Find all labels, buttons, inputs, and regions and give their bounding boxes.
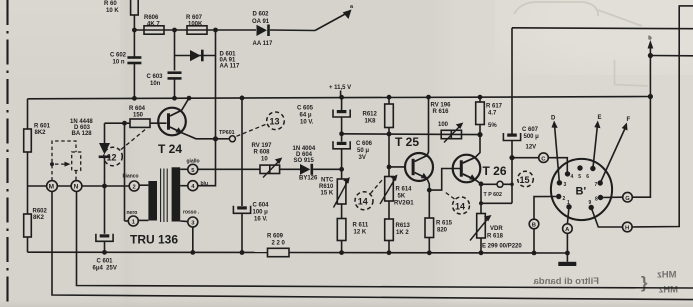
svg-text:C 603: C 603 xyxy=(147,74,164,80)
svg-text:10 V.: 10 V. xyxy=(300,120,314,126)
svg-text:12: 12 xyxy=(107,153,117,163)
resistor R611 12K xyxy=(337,219,369,241)
svg-text:2: 2 xyxy=(133,185,136,191)
svg-text:10 n: 10 n xyxy=(113,60,125,66)
svg-text:H: H xyxy=(625,226,629,232)
svg-text:R610: R610 xyxy=(319,184,334,190)
capacitor C603 10n xyxy=(147,73,182,99)
svg-text:R602: R602 xyxy=(33,209,48,215)
svg-text:64 μ: 64 μ xyxy=(300,113,312,119)
svg-text:E: E xyxy=(598,115,602,121)
node junction R605/R606 xyxy=(132,28,137,33)
b tap arrow xyxy=(648,36,693,97)
node D604/NTC xyxy=(339,167,344,172)
svg-text:7: 7 xyxy=(595,182,598,188)
svg-text:2: 2 xyxy=(563,196,566,202)
svg-text:T 26: T 26 xyxy=(483,164,507,178)
wire top bus y=30 xyxy=(134,29,256,31)
callout 14 dashed (right) xyxy=(445,192,470,214)
svg-text:1: 1 xyxy=(567,200,570,206)
capacitor C602 10n xyxy=(110,30,141,98)
svg-text:2 2 0: 2 2 0 xyxy=(272,241,286,247)
svg-text:R 608: R 608 xyxy=(254,150,271,156)
svg-text:RV 197: RV 197 xyxy=(252,143,273,149)
resistor R601 8K2 xyxy=(24,124,51,153)
wire nero feedback vertical xyxy=(124,123,126,221)
page border dash-dot left xyxy=(6,0,8,307)
svg-text:4.7: 4.7 xyxy=(488,111,497,117)
svg-text:MHz: MHz xyxy=(657,270,677,281)
M return line xyxy=(52,191,693,299)
dashed option link M-N xyxy=(52,141,81,181)
wire node b' vertical x=215.5 from top node down through rail to emitter junction xyxy=(215,30,217,139)
NTC R610 15K xyxy=(319,177,350,208)
callout 13 dashed xyxy=(237,112,285,136)
socket B' outline xyxy=(551,159,612,220)
svg-text:b: b xyxy=(648,36,652,42)
terminal 5 giallo xyxy=(180,159,199,175)
svg-text:Filtro di banda: Filtro di banda xyxy=(533,276,599,287)
ground rail bottom xyxy=(28,251,268,253)
resistor R607 xyxy=(186,15,207,34)
+11,5V label and stub xyxy=(340,91,342,98)
node rail end / G riser xyxy=(648,94,653,99)
svg-text:T 24: T 24 xyxy=(158,142,182,156)
terminal G from pin 8 xyxy=(601,97,651,203)
capacitor C601 6u4 25V xyxy=(93,234,117,272)
wire T24 emitter to junction xyxy=(182,133,216,139)
trimmer RV197 R608 10 xyxy=(252,143,283,178)
capacitor C604 100u 16V xyxy=(233,203,269,253)
svg-text:6μ4 25V: 6μ4 25V xyxy=(93,266,117,272)
svg-text:R 601: R 601 xyxy=(34,124,51,130)
svg-text:E 299 00/P220: E 299 00/P220 xyxy=(482,244,522,250)
svg-text:R606: R606 xyxy=(144,15,159,21)
terminal B xyxy=(529,197,556,253)
wire D602 to arrow a xyxy=(270,29,315,32)
transistor T25 xyxy=(395,135,433,181)
svg-text:1K 2: 1K 2 xyxy=(396,230,409,236)
svg-text:NTC: NTC xyxy=(321,178,334,184)
paper shading bands xyxy=(430,0,693,307)
node C605/C606/RV196 wire xyxy=(339,131,344,136)
test point TP601 xyxy=(216,130,236,142)
svg-text:C 604: C 604 xyxy=(253,203,270,209)
svg-text:C 602: C 602 xyxy=(110,53,127,59)
wire rosso to ground rail xyxy=(192,227,194,252)
svg-text:BA 128: BA 128 xyxy=(72,131,93,137)
svg-text:blu: blu xyxy=(201,181,209,187)
lead D to pin 3 xyxy=(551,116,559,183)
callout 15 dashed xyxy=(518,171,534,187)
svg-text:giallo: giallo xyxy=(187,159,200,165)
node junction R607/D601/D602 xyxy=(213,28,218,33)
node rail/C602 xyxy=(132,96,137,101)
svg-text:G: G xyxy=(625,196,630,202)
pin 5 xyxy=(577,165,582,170)
svg-text:R 614: R 614 xyxy=(396,187,413,193)
+11.5V rail xyxy=(28,97,651,99)
terminal H from pin 9 xyxy=(591,6,693,232)
svg-text:T P 602: T P 602 xyxy=(484,192,503,198)
svg-text:B: B xyxy=(532,223,536,229)
terminal 4 blu xyxy=(180,181,208,191)
svg-text:150: 150 xyxy=(133,113,144,119)
node junction R606/R607/C603 xyxy=(172,28,177,33)
node M xyxy=(47,181,58,192)
svg-text:8: 8 xyxy=(595,197,598,203)
terminal 3 rosso xyxy=(180,210,200,228)
svg-text:C 607: C 607 xyxy=(522,127,539,133)
node emitter/blu/TP601 xyxy=(213,136,218,141)
left column wire xyxy=(27,99,29,129)
pin 2 xyxy=(556,194,561,199)
wire T24 collector to rail xyxy=(182,98,189,110)
node RV196/R617/T26 collector xyxy=(477,132,482,137)
capacitor C607 500u 12V xyxy=(503,127,539,203)
M/N rail y=186 xyxy=(28,185,130,187)
svg-text:5%: 5% xyxy=(488,123,497,129)
trimmer R614 5K RV201 xyxy=(380,175,414,207)
lead F to pin 7 xyxy=(600,117,630,183)
svg-text:VDR: VDR xyxy=(490,226,503,232)
resistor R613 1K2 xyxy=(385,219,411,241)
svg-text:5: 5 xyxy=(578,174,581,180)
resistor R605 (cut at top) xyxy=(104,0,138,30)
svg-text:8K2: 8K2 xyxy=(35,130,47,136)
svg-text:R 618: R 618 xyxy=(487,234,504,240)
svg-text:C 601: C 601 xyxy=(97,259,114,265)
node C line tap xyxy=(509,155,514,160)
capacitor C606 50u 3V xyxy=(333,141,373,179)
svg-text:3V: 3V xyxy=(359,155,366,161)
capacitor C605 64u 10V xyxy=(297,106,350,142)
svg-text:OA 91: OA 91 xyxy=(252,19,270,25)
svg-text:16 V.: 16 V. xyxy=(254,217,268,223)
svg-text:C 605: C 605 xyxy=(297,106,314,112)
svg-text:5K: 5K xyxy=(398,194,406,200)
pin 9 xyxy=(589,205,594,210)
diode D604 1N4004 SO915 BY126 xyxy=(293,146,319,182)
pin 7 xyxy=(598,180,603,185)
top bus wire xyxy=(512,27,693,30)
wire T25 emitter to node xyxy=(427,179,429,191)
node C601/ground rail xyxy=(102,250,107,255)
svg-text:100: 100 xyxy=(438,122,449,128)
pin 3 xyxy=(557,180,562,185)
svg-text:10n: 10n xyxy=(150,81,161,87)
svg-text:13: 13 xyxy=(270,117,280,127)
svg-text:12V: 12V xyxy=(526,145,537,151)
VDR R618 E299 00/P220 xyxy=(470,214,522,253)
diode D601 0A91 AA117 xyxy=(175,50,240,70)
trimmer RV196 R616 100 xyxy=(431,103,464,143)
node D603/M-N rail xyxy=(102,184,107,189)
svg-text:R 616: R 616 xyxy=(433,109,450,115)
svg-text:10 K: 10 K xyxy=(106,8,119,14)
svg-text:+ 11,5 V: + 11,5 V xyxy=(329,85,351,91)
svg-text:R 609: R 609 xyxy=(267,234,284,240)
svg-text:{: { xyxy=(641,273,648,292)
svg-text:F: F xyxy=(627,117,631,123)
N return line xyxy=(77,191,693,288)
svg-text:N: N xyxy=(74,184,79,191)
resistor R604 150 xyxy=(125,106,167,127)
resistor R617 4.7 5% xyxy=(476,95,503,135)
callout 14 dashed (left) xyxy=(355,180,383,210)
node N xyxy=(71,181,82,192)
resistor R609 220 (in series in rail) xyxy=(267,234,289,257)
lead E to pin 6 xyxy=(593,115,602,169)
svg-text:AA 117: AA 117 xyxy=(253,41,273,47)
svg-text:TP601: TP601 xyxy=(219,130,235,136)
svg-text:4K 7: 4K 7 xyxy=(147,22,160,28)
svg-text:R 617: R 617 xyxy=(486,104,503,110)
svg-text:D: D xyxy=(551,116,556,122)
bleed-through ghosts xyxy=(514,2,648,86)
svg-text:M: M xyxy=(49,184,54,191)
wire blu to emitter node xyxy=(198,139,216,186)
resistor R615 820 xyxy=(425,190,453,253)
svg-text:4: 4 xyxy=(571,174,574,180)
svg-text:RV2Θ1: RV2Θ1 xyxy=(394,201,414,207)
terminal A on ground lead xyxy=(563,207,573,262)
wire vertical from R606/R607 node down to D601 and C603 xyxy=(174,30,176,71)
node T25 base xyxy=(387,165,392,170)
callout 12 dashed xyxy=(104,128,147,166)
svg-text:6: 6 xyxy=(586,174,589,180)
svg-text:1K8: 1K8 xyxy=(365,119,377,125)
diode D603 1N4448 BA128 branch xyxy=(70,119,125,234)
wire to emitter line xyxy=(481,202,512,204)
svg-text:B': B' xyxy=(576,186,587,198)
svg-text:RV 196: RV 196 xyxy=(431,103,452,109)
svg-text:BY126: BY126 xyxy=(299,176,318,182)
vertical C605/C606/NTC/R611 branch xyxy=(339,95,344,100)
node rail/C603 xyxy=(172,96,177,101)
svg-text:R 611: R 611 xyxy=(353,223,369,229)
svg-text:820: 820 xyxy=(437,228,448,234)
svg-text:bianco: bianco xyxy=(123,174,139,180)
svg-text:50 μ: 50 μ xyxy=(357,148,369,154)
svg-text:14: 14 xyxy=(358,197,368,207)
svg-text:9: 9 xyxy=(589,200,592,206)
test point TP602 xyxy=(481,181,514,198)
svg-text:R 604: R 604 xyxy=(129,106,146,112)
wire T26 collector xyxy=(475,135,480,158)
resistor R606 xyxy=(144,15,164,34)
resistor R612 1K8 xyxy=(363,104,394,128)
wire emitter node to T26 base xyxy=(429,169,460,191)
ground xyxy=(558,262,576,266)
svg-text:3: 3 xyxy=(564,182,567,188)
resistor R602 8K2 xyxy=(24,209,48,238)
svg-text:500 μ: 500 μ xyxy=(524,134,540,140)
svg-text:14: 14 xyxy=(455,201,465,211)
svg-text:rosso .: rosso . xyxy=(183,210,200,216)
node R604/D603/nero xyxy=(122,121,127,126)
svg-text:R612: R612 xyxy=(363,112,378,118)
svg-text:AA 117: AA 117 xyxy=(220,64,240,70)
svg-text:a: a xyxy=(350,4,354,10)
arrowhead a xyxy=(343,10,352,20)
svg-text:15 K: 15 K xyxy=(321,191,334,197)
diode D602 OA91 AA117 xyxy=(252,12,273,48)
transistor T24 xyxy=(158,108,186,156)
svg-text:TRU 136: TRU 136 xyxy=(130,233,178,247)
svg-text:D 602: D 602 xyxy=(253,12,270,18)
svg-text:C 606: C 606 xyxy=(356,141,373,147)
pin 6 xyxy=(590,166,595,171)
wire bias RV196 horizontal y=134 xyxy=(342,133,480,136)
wire T26 emitter xyxy=(475,180,481,214)
svg-text:R 607: R 607 xyxy=(186,15,203,21)
svg-text:10: 10 xyxy=(261,157,268,163)
svg-text:12 K: 12 K xyxy=(354,230,367,236)
transistor T26 xyxy=(453,155,507,183)
terminal 2 bianco xyxy=(123,174,149,192)
wire T25 collector to rail xyxy=(427,97,429,155)
pin 4 xyxy=(565,171,570,176)
svg-text:T 25: T 25 xyxy=(395,135,419,149)
pin 8 xyxy=(598,195,603,200)
node rail/T24 collector xyxy=(187,96,192,101)
svg-text:8K2: 8K2 xyxy=(33,215,45,221)
svg-text:MHz: MHz xyxy=(658,285,678,296)
transformer TRU136 xyxy=(130,167,180,246)
svg-text:100K: 100K xyxy=(188,22,203,28)
svg-text:R 60: R 60 xyxy=(104,1,117,7)
terminal 1 nero xyxy=(127,210,149,226)
svg-text:100 μ: 100 μ xyxy=(253,210,269,216)
wire giallo output xyxy=(198,168,260,170)
terminal C xyxy=(512,153,567,172)
svg-text:15: 15 xyxy=(520,175,530,185)
svg-text:SO 915: SO 915 xyxy=(294,158,315,164)
wire C607 branch vertical from top bus xyxy=(511,28,513,134)
pin 1 xyxy=(566,204,571,209)
svg-text:R613: R613 xyxy=(396,223,411,229)
svg-text:nero: nero xyxy=(127,210,138,216)
vertical C604 branch from rail xyxy=(241,98,243,206)
vertical R612/R614/R613 branch xyxy=(387,95,392,100)
svg-text:R 615: R 615 xyxy=(436,221,453,227)
